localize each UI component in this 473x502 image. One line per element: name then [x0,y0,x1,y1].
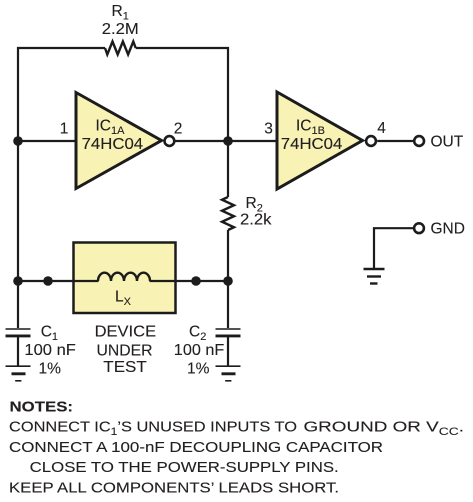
svg-text:TEST: TEST [103,359,147,376]
svg-text:2.2k: 2.2k [240,212,272,229]
svg-text:CONNECT A 100-nF DECOUPLING CA: CONNECT A 100-nF DECOUPLING CAPACITOR [9,439,383,456]
svg-text:74HC04: 74HC04 [82,136,144,153]
svg-text:C1: C1 [41,324,58,344]
svg-text:2.2M: 2.2M [102,21,139,38]
svg-text:3: 3 [264,121,273,138]
svg-text:1: 1 [60,121,69,138]
svg-text:100 nF: 100 nF [24,342,76,359]
svg-text:UNDER: UNDER [97,343,153,360]
svg-text:NOTES:: NOTES: [10,399,74,416]
svg-text:KEEP ALL COMPONENTS’ LEADS SHO: KEEP ALL COMPONENTS’ LEADS SHORT. [9,479,339,496]
svg-text:4: 4 [377,120,386,137]
svg-text:GND: GND [431,221,465,238]
svg-text:R1: R1 [112,3,129,23]
svg-text:1%: 1% [187,361,210,378]
svg-text:CONNECT IC1’S UNUSED INPUTS TO: CONNECT IC1’S UNUSED INPUTS TO [9,419,297,438]
svg-text:GROUND OR VCC.: GROUND OR VCC. [304,419,465,438]
svg-text:100 nF: 100 nF [174,342,225,359]
svg-text:2: 2 [174,121,183,138]
svg-text:CLOSE TO THE POWER-SUPPLY PINS: CLOSE TO THE POWER-SUPPLY PINS. [30,459,339,476]
svg-text:74HC04: 74HC04 [281,136,343,153]
svg-text:1%: 1% [39,361,62,378]
svg-text:C2: C2 [189,324,206,344]
svg-text:OUT: OUT [431,134,464,151]
svg-text:DEVICE: DEVICE [95,324,156,341]
